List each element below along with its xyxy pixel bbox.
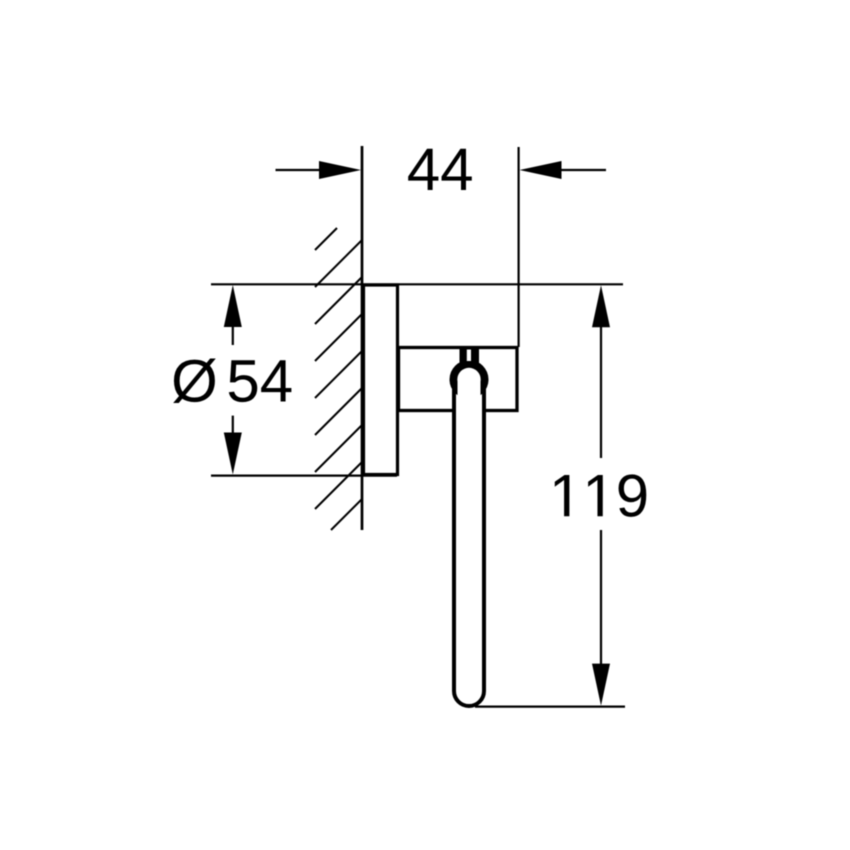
extension line top (plate top / 119 top) (211, 283, 623, 285)
dimension 54 label (173, 359, 216, 404)
extension line bottom of plate (dia 54) (211, 475, 397, 477)
dimension 44 line left (276, 169, 326, 171)
dimension 54 arrow up (224, 285, 242, 327)
dimension 119 shaft bottom (600, 530, 602, 670)
dimension 119 label (555, 474, 647, 516)
dimension 54 shaft bottom (232, 416, 234, 438)
pin slit (467, 350, 471, 362)
holder body (399, 348, 518, 411)
extension line right of body (44 dim) (517, 147, 519, 347)
dimension 44 arrow right (520, 161, 562, 179)
dimension 119 arrow up (592, 285, 610, 327)
pivot ball lower white restore (458, 380, 481, 406)
dimension 44 label (408, 149, 472, 190)
wall hatching (315, 228, 362, 530)
pivot ball outer (450, 360, 489, 399)
ring (paper holder loop, side view) (454, 365, 484, 706)
dimension 54 arrow down (224, 433, 242, 475)
dimension 119 arrow down (592, 664, 610, 706)
pin (460, 347, 480, 366)
dimension 44 arrow left (319, 161, 361, 179)
wall face line (361, 146, 364, 530)
dimension 54 shaft top (232, 322, 234, 345)
pivot ball inner (457, 368, 480, 391)
extension line bottom of ring (119 bottom) (475, 705, 625, 707)
dimension 119 shaft top (600, 322, 602, 458)
dimension 44 line right (556, 169, 606, 171)
wall plate (escutcheon, side view) (364, 285, 398, 475)
